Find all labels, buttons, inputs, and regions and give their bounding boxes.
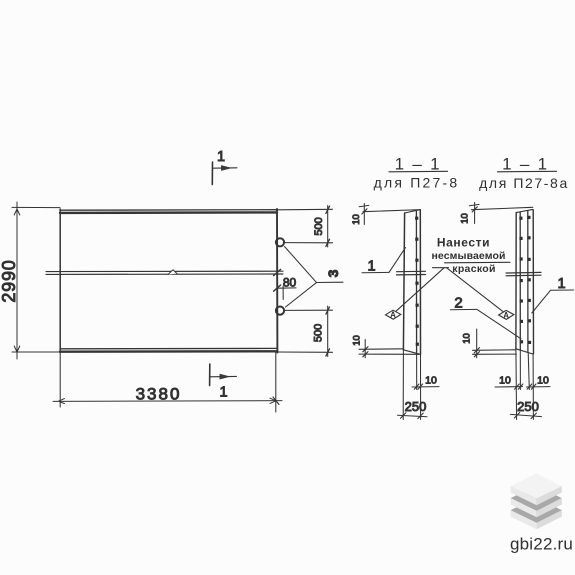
svg-text:80: 80 xyxy=(283,275,297,289)
svg-text:А: А xyxy=(390,311,396,320)
section 1 break lines xyxy=(397,271,426,275)
dimension 500 top right xyxy=(277,206,333,248)
section 2 dimension 10 bottom-left xyxy=(473,329,517,358)
panel plan outline xyxy=(60,209,277,353)
svg-text:1: 1 xyxy=(217,149,225,165)
svg-text:500: 500 xyxy=(313,217,325,235)
svg-text:10: 10 xyxy=(462,333,473,344)
svg-text:1 – 1: 1 – 1 xyxy=(502,155,549,174)
panel top edge (double line) xyxy=(60,209,277,212)
svg-text:для П27-8а: для П27-8а xyxy=(479,175,569,191)
svg-text:10: 10 xyxy=(351,214,362,225)
leader to label 3 xyxy=(285,247,344,308)
slab 3 (bottom) xyxy=(511,498,562,530)
svg-text:1 – 1: 1 – 1 xyxy=(395,155,442,174)
svg-text:10: 10 xyxy=(425,375,437,387)
svg-text:10: 10 xyxy=(460,213,471,224)
slab 1 (top) xyxy=(511,473,562,505)
svg-text:500: 500 xyxy=(313,324,325,342)
svg-text:для П27-8: для П27-8 xyxy=(374,175,460,191)
svg-text:gbi22.ru: gbi22.ru xyxy=(510,535,573,554)
section 2 lower extension lines xyxy=(516,349,534,420)
svg-text:2: 2 xyxy=(454,295,462,312)
svg-text:1: 1 xyxy=(219,385,227,401)
section 2 dimension 250 xyxy=(511,413,542,419)
panel right edge xyxy=(276,209,278,353)
svg-text:А: А xyxy=(503,311,509,320)
section 1 panel strip outline xyxy=(403,210,420,355)
svg-text:250: 250 xyxy=(405,399,427,414)
dimension 80 xyxy=(274,269,296,299)
dimension 500 bottom right xyxy=(277,306,333,357)
section mark 1 bottom xyxy=(210,364,237,386)
section 1 label 1 leader xyxy=(362,248,406,273)
note underline xyxy=(445,261,511,264)
section 1 dimension 10 top xyxy=(359,204,420,225)
dimension 2990 left xyxy=(12,202,60,359)
gbi22.ru logo: stack of three slabs xyxy=(511,473,562,529)
section 2 panel strip outline xyxy=(516,209,534,354)
svg-text:Нанести: Нанести xyxy=(437,236,490,250)
section 1-1 title (for P27-8a) xyxy=(479,155,569,192)
section 2 dimension 10 bottom pair xyxy=(495,384,550,389)
svg-text:10: 10 xyxy=(537,375,549,387)
panel joint line (double) with break mark xyxy=(46,270,283,275)
section 2 rebar dots (two rows) xyxy=(519,216,531,344)
note leader to both diamonds xyxy=(396,268,503,312)
section 2 dimension 10 top xyxy=(470,203,533,224)
section 1 dimension 250 xyxy=(398,413,428,419)
paint mark diamond A section 1 xyxy=(386,310,401,319)
section mark 1 top xyxy=(212,162,237,185)
note text: apply with indelible paint xyxy=(431,236,505,276)
mounting loop hook 1 xyxy=(276,238,284,246)
svg-text:краской: краской xyxy=(452,263,495,275)
slab 2 (middle) xyxy=(511,485,562,517)
section 1-1 title underline xyxy=(389,170,448,173)
section 1 lower extension lines xyxy=(403,350,420,420)
section 1-1 title (for P27-8) xyxy=(374,155,460,191)
section 1 dimension 10 bottom xyxy=(412,384,439,389)
section 1-1a title underline xyxy=(498,170,557,173)
panel left edge xyxy=(59,209,61,353)
svg-text:2990: 2990 xyxy=(0,259,19,302)
svg-text:3380: 3380 xyxy=(136,385,182,404)
section 1 rebar dots xyxy=(415,217,419,346)
svg-text:10: 10 xyxy=(499,375,511,387)
panel bottom edge (double line) xyxy=(60,347,277,349)
dimension 3380 bottom xyxy=(53,352,282,412)
svg-text:250: 250 xyxy=(517,399,539,414)
svg-text:1: 1 xyxy=(557,276,565,292)
svg-text:1: 1 xyxy=(367,259,375,275)
section 2 label 1 leader (right) xyxy=(532,290,574,313)
mounting loop hook 2 xyxy=(276,307,284,315)
section 1 dimension 10 bottom-left xyxy=(359,340,420,358)
svg-text:несмываемой: несмываемой xyxy=(431,250,505,262)
paint mark diamond A section 2 xyxy=(499,310,514,319)
svg-text:10: 10 xyxy=(352,335,363,346)
section 2 label 2 leader xyxy=(451,309,522,338)
section 2 break lines xyxy=(506,272,541,275)
svg-text:3: 3 xyxy=(325,269,341,277)
